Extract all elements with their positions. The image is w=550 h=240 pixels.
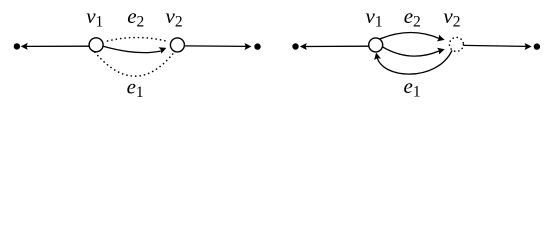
svg-text:e2: e2 — [127, 4, 144, 30]
svg-text:v2: v2 — [443, 4, 460, 30]
svg-text:v1: v1 — [86, 4, 103, 30]
svg-text:v2: v2 — [166, 4, 183, 30]
svg-text:v1: v1 — [366, 4, 383, 30]
svg-text:e1: e1 — [127, 75, 144, 101]
svg-text:e2: e2 — [404, 4, 421, 30]
svg-text:e1: e1 — [404, 74, 421, 100]
